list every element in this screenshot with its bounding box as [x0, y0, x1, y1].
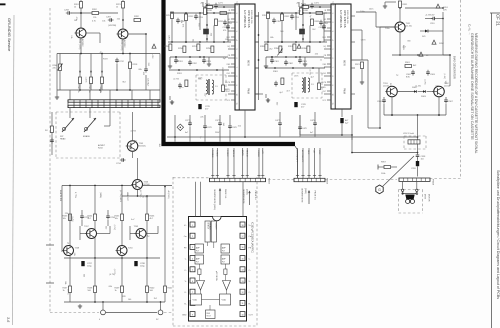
svg-text:11: 11: [235, 103, 237, 105]
svg-text:PTA08: PTA08: [432, 179, 435, 186]
svg-text:68k: 68k: [109, 286, 112, 288]
wires into PTA05: [296, 148, 322, 178]
svg-text:1n: 1n: [211, 93, 213, 95]
wire vertical x95: [94, 187, 96, 259]
svg-text:5: 5: [331, 49, 333, 50]
svg-text:KLAPPE R/B: KLAPPE R/B: [59, 190, 62, 202]
svg-text:22k: 22k: [99, 90, 101, 93]
IC101 playback/record IC: [225, 4, 259, 110]
resistor R238: [88, 258, 97, 302]
svg-text:BC550C: BC550C: [81, 39, 83, 47]
capacitor C277: [185, 115, 192, 142]
wire y135 link: [300, 115, 353, 140]
svg-text:11: 11: [331, 103, 333, 105]
transistor T209: [134, 226, 147, 239]
channel A input network: [164, 2, 247, 110]
IC150 dashed module box: [173, 177, 257, 326]
IC102 right stubs: [351, 30, 364, 84]
value labels head amp: [70, 17, 126, 54]
tick on dashed border 1: [46, 244, 54, 246]
wire bus y186: [62, 185, 172, 199]
wire input node: [71, 12, 118, 14]
svg-text:8.8k: 8.8k: [406, 76, 410, 78]
resistor R282: [134, 16, 141, 22]
svg-text:2: 2: [192, 236, 193, 238]
IC150 designator: [251, 222, 254, 253]
svg-text:VCA: VCA: [222, 299, 227, 302]
svg-text:C378: C378: [232, 127, 237, 129]
wire bias feed y152: [352, 152, 417, 154]
capacitor C381 top: [332, 2, 334, 7]
svg-text:1μ: 1μ: [396, 75, 398, 77]
connector strip PTA08: [399, 178, 435, 186]
svg-text:REC: REC: [307, 150, 309, 155]
svg-text:68k: 68k: [198, 79, 201, 81]
wire drop x175: [174, 115, 176, 142]
svg-text:(0.7V): (0.7V): [113, 225, 115, 231]
wire T207 base: [80, 226, 110, 240]
wire bias output: [417, 115, 419, 136]
svg-text:PWM: PWM: [343, 88, 345, 94]
svg-text:7: 7: [235, 67, 237, 68]
potentiometer R244: [99, 54, 104, 93]
svg-text:8: 8: [235, 76, 237, 77]
capacitor C378: [228, 115, 236, 142]
svg-text:250V: 250V: [215, 132, 220, 134]
svg-text:10k: 10k: [102, 21, 105, 23]
capacitor C951: [425, 15, 437, 26]
junction dots head amp: [80, 12, 147, 91]
svg-text:1μ: 1μ: [199, 136, 201, 138]
svg-text:UPC 1297 CA: UPC 1297 CA: [247, 10, 251, 28]
svg-text:Rₒ: Rₒ: [249, 303, 251, 305]
IC150 internal blocks: [191, 221, 231, 319]
svg-text:GERÄTESEITE: GERÄTESEITE: [242, 189, 245, 204]
value labels line amp: [65, 197, 150, 256]
diode D962: [412, 87, 418, 93]
resistor R236: [146, 214, 156, 221]
transistor T207: [84, 226, 97, 239]
junction dots bias: [391, 7, 440, 116]
wire vertical x62: [61, 186, 63, 253]
svg-text:10: 10: [235, 94, 237, 96]
IC150 body: [189, 217, 247, 322]
svg-text:4n7: 4n7: [185, 132, 188, 134]
svg-text:CF 21: CF 21: [496, 14, 500, 27]
svg-text:FLT: FLT: [222, 261, 225, 263]
junction y137/x417: [417, 136, 419, 153]
svg-text:(1.4V): (1.4V): [71, 216, 73, 222]
svg-text:68k: 68k: [302, 88, 305, 90]
svg-text:9: 9: [235, 85, 237, 86]
warning triangle 950: [432, 40, 445, 45]
resistor R234: [88, 214, 97, 221]
left margin title GRUNDIG Service: [7, 18, 12, 52]
svg-text:DETECT: DETECT: [206, 223, 208, 229]
highlighted signal bus (thick): [164, 0, 296, 144]
capacitor C478: [298, 115, 306, 137]
resistor R221: [116, 2, 125, 9]
electrolytic C959: [411, 161, 419, 177]
svg-text:1μ: 1μ: [67, 242, 69, 244]
right margin label CF 21: [496, 14, 500, 27]
svg-text:68k: 68k: [139, 69, 142, 71]
svg-text:68k: 68k: [270, 37, 273, 39]
svg-text:7: 7: [331, 67, 333, 68]
svg-text:C951: C951: [430, 23, 435, 25]
svg-text:1μ: 1μ: [99, 51, 101, 53]
dark component channel A: [204, 29, 209, 34]
potentiometer R243: [88, 54, 93, 93]
signal name LINE: [126, 192, 128, 202]
svg-text:10: 10: [241, 314, 243, 316]
shield node symbol: [177, 124, 184, 131]
svg-text:GEWÜNSCHTE AUFNAHME OHNE SIGNA: GEWÜNSCHTE AUFNAHME OHNE SIGNAL/SET ON C…: [470, 33, 474, 140]
svg-text:[1353]: [1353]: [246, 189, 248, 195]
svg-text:15: 15: [241, 258, 243, 260]
resistor R239: [115, 255, 124, 302]
connector strip PTA05: [294, 178, 329, 185]
svg-text:U-BIAS: U-BIAS: [257, 150, 260, 158]
resistor R961: [405, 62, 417, 68]
right sidebar caption: [496, 170, 500, 299]
resistor R218: [129, 53, 139, 90]
svg-text:1n: 1n: [181, 87, 183, 89]
svg-text:1/2 U2560 CA: 1/2 U2560 CA: [243, 10, 247, 28]
svg-text:4: 4: [192, 258, 193, 260]
svg-text:5V6: 5V6: [422, 36, 425, 38]
wire T209 base: [130, 226, 158, 240]
ground top bias: [383, 2, 396, 8]
wire vertical x165: [164, 186, 166, 268]
IC101 right pin wires: [255, 16, 263, 94]
capacitor C212: [115, 58, 124, 90]
svg-text:FLT: FLT: [196, 250, 199, 252]
capacitor C281 top: [236, 2, 238, 7]
svg-text:14: 14: [241, 270, 243, 272]
svg-text:PWM: PWM: [247, 88, 249, 94]
inter-channel wire: [258, 12, 260, 100]
wire x368 drop: [351, 60, 368, 128]
trim arrow 1: [79, 70, 81, 77]
terminal J1: [99, 302, 105, 321]
svg-text:[1353]: [1353]: [304, 188, 306, 194]
ground lower amp: [78, 304, 82, 308]
svg-text:VCA: VCA: [193, 299, 198, 302]
svg-text:47k: 47k: [181, 24, 183, 27]
svg-text:(0.7V): (0.7V): [308, 69, 310, 75]
cross-reference note page 3-5: [301, 188, 317, 204]
wire T951 emitter: [392, 32, 451, 56]
svg-text:PAGE 3-4: PAGE 3-4: [254, 191, 257, 201]
svg-text:BC550C: BC550C: [139, 145, 147, 147]
dark component channel B: [300, 29, 305, 34]
resistor R237: [63, 255, 72, 302]
capacitor C377: [215, 115, 222, 142]
svg-text:100k: 100k: [381, 173, 385, 175]
channel A stubs to IC101: [228, 13, 235, 94]
potentiometer R246: [53, 54, 63, 91]
value labels channel A: [167, 20, 228, 71]
wire T205 collector: [132, 112, 134, 158]
svg-text:22k: 22k: [200, 116, 203, 118]
IC102 playback/record IC: [321, 4, 355, 109]
svg-text:AGC: AGC: [226, 27, 231, 30]
zener D952: [420, 30, 443, 39]
svg-text:1k: 1k: [116, 6, 118, 8]
cross-reference note page 3-4: [242, 189, 257, 205]
capacitor C278: [203, 115, 211, 142]
svg-text:100n: 100n: [369, 8, 373, 10]
svg-text:22k: 22k: [117, 19, 120, 21]
svg-text:R381: R381: [304, 10, 309, 12]
svg-text:1n: 1n: [320, 59, 322, 61]
svg-text:4.7k: 4.7k: [92, 21, 96, 23]
transistor T202: [108, 25, 128, 51]
svg-text:GRUNDIG Service: GRUNDIG Service: [7, 18, 12, 52]
svg-text:1k: 1k: [74, 6, 76, 8]
svg-text:3: 3: [331, 31, 333, 32]
svg-text:3: 3: [192, 247, 193, 249]
svg-text:100μ: 100μ: [87, 265, 92, 267]
motor M999: [401, 182, 429, 204]
resistor R951: [399, 1, 409, 22]
pcb outline dashed left: [49, 8, 51, 312]
pcb outline dashed right: [460, 0, 462, 178]
wire C951 node: [425, 12, 444, 31]
svg-text:R281: R281: [208, 10, 213, 12]
svg-text:47k: 47k: [223, 30, 226, 32]
svg-text:VOLT: VOLT: [207, 316, 211, 318]
svg-text:10n: 10n: [421, 158, 424, 160]
svg-text:18: 18: [241, 225, 243, 227]
svg-text:GERÄTESEITE [1353]: GERÄTESEITE [1353]: [213, 189, 216, 210]
wire top rail B: [302, 0, 331, 6]
wire bus y295: [64, 301, 165, 303]
svg-text:6: 6: [235, 58, 237, 59]
transistor T210: [116, 246, 134, 256]
svg-text:15k: 15k: [238, 125, 241, 127]
head assembly dashed box: [56, 112, 120, 158]
pcb dashed boundary segment C: [425, 178, 461, 180]
value labels head area: [128, 130, 160, 150]
svg-text:(1.4V): (1.4V): [85, 77, 87, 83]
motor dashed box: [399, 190, 423, 214]
svg-text:3: 3: [235, 31, 237, 32]
resistor R241: [164, 268, 174, 302]
wire right rail: [159, 54, 161, 101]
junction dots channel B: [267, 12, 321, 58]
svg-text:6000-014-001: 6000-014-001: [346, 10, 348, 24]
wire vertical x147: [146, 196, 148, 258]
svg-text:4: 4: [331, 40, 333, 41]
svg-text:T201 (1.15): T201 (1.15): [78, 39, 80, 50]
resistor R381 top: [296, 3, 308, 15]
svg-text:Cₖ: Cₖ: [249, 292, 251, 294]
erase head: [83, 118, 96, 138]
transistor T951: [394, 22, 413, 32]
svg-text:TONKO: TONKO: [211, 150, 213, 158]
svg-text:15k: 15k: [275, 56, 278, 58]
svg-text:10k: 10k: [63, 218, 66, 220]
svg-text:MOL-A: MOL-A: [232, 150, 235, 157]
svg-text:C278: C278: [207, 127, 212, 129]
svg-text:MUTE: MUTE: [241, 150, 243, 157]
svg-text:(1497/98): (1497/98): [108, 25, 116, 27]
svg-text:(0.7V): (0.7V): [142, 197, 148, 199]
svg-text:Schaltpläne und Druckplattenab: Schaltpläne und Druckplattenabbildungen …: [496, 170, 500, 299]
svg-text:R244: R244: [98, 148, 103, 150]
cross-reference note page 3-6: [213, 188, 227, 210]
svg-text:MON: MON: [343, 60, 345, 66]
svg-text:47k: 47k: [75, 17, 77, 20]
capacitor C962: [406, 70, 415, 79]
capacitor C479: [310, 112, 317, 137]
svg-text:Rₑ: Rₑ: [184, 303, 186, 305]
svg-text:T202 (1.15): T202 (1.15): [120, 40, 122, 51]
wire top rail A: [206, 0, 235, 6]
value labels under ICs: [189, 116, 241, 138]
svg-text:17: 17: [241, 236, 243, 238]
svg-text:OSC: OSC: [318, 150, 320, 155]
svg-text:(1.4V): (1.4V): [415, 86, 421, 88]
svg-text:0,775V: 0,775V: [74, 192, 76, 199]
svg-text:R365: R365: [321, 87, 326, 89]
value labels channel B: [269, 11, 322, 76]
generator lead: [383, 156, 414, 186]
svg-text:REF: REF: [207, 313, 210, 315]
signal bus continuation wire: [295, 146, 298, 178]
IC101 bottom wire: [244, 110, 246, 138]
signal name KOPFH: [59, 190, 121, 202]
svg-text:μPC 98 CA: μPC 98 CA: [215, 271, 218, 281]
resistor R201: [74, 2, 83, 9]
svg-text:PTA05: PTA05: [326, 178, 329, 185]
svg-text:(1.4V): (1.4V): [443, 74, 445, 80]
svg-text:22k: 22k: [73, 253, 75, 256]
svg-text:BIAS GENERATOR: BIAS GENERATOR: [453, 56, 457, 79]
svg-text:1μ: 1μ: [309, 15, 311, 17]
svg-text:OSC: OSC: [226, 73, 231, 75]
electrolytic C238: [134, 261, 145, 267]
svg-text:U-TONKOPF: U-TONKOPF: [296, 150, 298, 163]
svg-text:MON: MON: [247, 60, 249, 66]
terminal J2: [156, 302, 163, 321]
svg-text:OSC: OSC: [322, 73, 327, 75]
page corner registration mark: [0, 3, 6, 5]
trim arrow 3: [101, 70, 103, 77]
svg-text:Cₒ: Cₒ: [249, 270, 251, 272]
svg-text:4n7: 4n7: [310, 132, 313, 134]
svg-text:+B (Z101): +B (Z101): [167, 190, 169, 199]
channel B stubs to IC102: [324, 13, 331, 94]
svg-text:MOTOR: MOTOR: [428, 194, 430, 202]
electrolytic C237: [81, 261, 92, 267]
svg-text:11: 11: [242, 303, 244, 305]
svg-text:MEMORY: MEMORY: [215, 223, 217, 231]
svg-text:15k: 15k: [221, 67, 223, 70]
svg-text:1: 1: [331, 13, 333, 14]
transistor T206: [131, 180, 151, 190]
wire emitter rails: [81, 33, 123, 54]
shield terminal: [45, 112, 54, 155]
warning triangle mid: [297, 44, 301, 48]
wire x303 channel B: [302, 5, 304, 42]
svg-text:5: 5: [192, 270, 193, 272]
svg-text:(0.7V): (0.7V): [113, 269, 115, 275]
svg-text:16: 16: [241, 247, 243, 249]
svg-text:1: 1: [192, 225, 193, 227]
svg-text:MUTE: MUTE: [225, 82, 231, 84]
svg-text:(0.7V): (0.7V): [174, 78, 180, 80]
svg-text:FLT: FLT: [196, 261, 199, 263]
svg-text:1:9: 1:9: [215, 86, 218, 88]
svg-text:10k: 10k: [70, 35, 72, 38]
svg-text:68k: 68k: [64, 281, 66, 284]
svg-text:(11.31): (11.31): [383, 85, 390, 87]
wire left rail: [55, 54, 59, 100]
svg-text:10k: 10k: [176, 61, 179, 63]
svg-text:R4: R4: [45, 130, 47, 132]
transistor T201: [75, 28, 87, 50]
svg-text:(0.775V) MOL: (0.775V) MOL: [119, 190, 121, 202]
warning triangle head amp: [151, 44, 156, 59]
wire vertical x122: [121, 187, 123, 246]
svg-text:100: 100: [128, 299, 131, 301]
value labels channel B osc: [276, 76, 315, 106]
svg-text:12: 12: [241, 292, 243, 294]
wires strip PTA03 to IC150: [196, 182, 244, 217]
svg-text:100n: 100n: [360, 11, 364, 13]
wire x207 channel A: [206, 5, 208, 42]
wire bus y258: [64, 257, 160, 259]
svg-text:22k: 22k: [209, 33, 211, 36]
wire between bias transistors: [397, 91, 433, 93]
svg-text:AGC: AGC: [322, 27, 327, 30]
svg-text:MUTE: MUTE: [321, 82, 327, 84]
wire vertical x70: [69, 186, 71, 246]
svg-text:HEAD: HEAD: [60, 138, 66, 141]
capacitor C958: [416, 153, 426, 161]
svg-text:22k: 22k: [53, 67, 56, 69]
svg-text:R28: R28: [122, 296, 125, 298]
head wiring: [70, 108, 110, 150]
svg-text:1n: 1n: [189, 122, 191, 124]
potentiometer R242: [77, 54, 82, 93]
svg-text:1k: 1k: [63, 290, 65, 292]
svg-text:10k: 10k: [180, 20, 182, 23]
svg-text:REC-B: REC-B: [245, 150, 247, 157]
tape-head connector bars: [68, 100, 160, 108]
value labels bias lower: [389, 74, 446, 88]
svg-text:G: G: [378, 188, 381, 192]
resistor R281 top: [200, 3, 212, 15]
IC102 bottom pin cap C291: [340, 109, 349, 135]
svg-text:1k: 1k: [115, 290, 117, 292]
svg-text:C479: C479: [310, 120, 315, 122]
capacitor C287: [106, 17, 114, 22]
capacitor C967: [444, 97, 453, 115]
svg-text:1μ: 1μ: [147, 236, 149, 238]
svg-text:M999: M999: [424, 194, 426, 200]
value labels bias upper: [360, 8, 411, 50]
value labels channel A osc: [174, 78, 214, 97]
svg-text:1:9: 1:9: [311, 84, 314, 86]
bias feed from IC102: [356, 12, 395, 27]
svg-text:(0.7V): (0.7V): [131, 140, 137, 142]
svg-text:C477: C477: [275, 120, 280, 122]
svg-text:10k: 10k: [115, 218, 118, 220]
